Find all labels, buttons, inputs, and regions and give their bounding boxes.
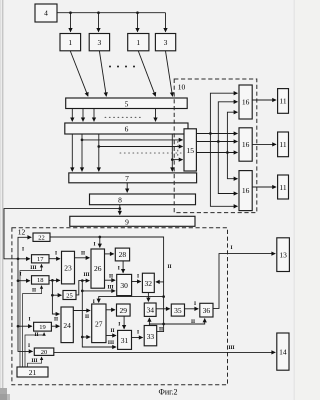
svg-text:II: II [85,314,89,320]
svg-text:36: 36 [203,306,211,315]
svg-text:24: 24 [63,321,71,330]
svg-text:III: III [30,265,36,271]
wire 29 to 31 [123,316,125,329]
wire 30 to 32 [132,281,141,283]
reference bus from 21 to 19 [25,333,44,367]
bus vertical 1 [210,93,237,133]
svg-text:I: I [137,330,139,336]
wire 36 to 13 [213,254,275,309]
reference bus from 21 to 18 [23,286,42,367]
box 19 [34,322,52,331]
wire 6 tap to 15 input 3 [172,159,182,161]
svg-text:16: 16 [242,186,250,195]
box 24 [61,307,73,343]
wire 32 to 34 [147,293,149,302]
svg-text:I: I [28,343,30,349]
svg-text:I: I [118,266,120,272]
box 16b [239,128,252,161]
box 30 [117,274,132,295]
15 output bus wires [196,133,237,135]
box 3b [155,34,175,51]
svg-text:I: I [55,251,57,257]
box 11a [278,89,289,114]
svg-text:II: II [109,273,113,279]
wire 33 to 34 [148,318,150,326]
wire 35 to 36 [185,308,199,310]
box 17 [32,255,50,263]
wire 19 to 24 [51,325,59,327]
svg-text:7: 7 [125,174,129,183]
wire 16a to 11a [252,99,276,101]
svg-text:28: 28 [119,250,127,259]
box 20 [34,348,54,356]
svg-text:II: II [159,327,163,333]
svg-text:I: I [194,301,196,307]
svg-text:17: 17 [37,256,44,263]
svg-text:10: 10 [178,83,186,92]
svg-text:II: II [167,264,171,270]
bus vertical 3 [227,112,237,152]
box 29 [117,304,131,316]
box 1b [128,34,149,51]
wire 24 to 27 [73,310,90,312]
box 34 [144,303,156,316]
svg-text:III: III [83,272,89,278]
box 33 [144,326,157,346]
svg-text:3: 3 [98,38,102,47]
svg-text:22: 22 [38,235,45,242]
box 31 [118,330,132,349]
wire 3a to 5 [99,51,106,96]
box 32 [142,273,154,292]
box 1a [60,34,81,51]
svg-text:13: 13 [279,251,287,260]
box 25 [63,291,76,300]
feedback riser to 22 and drops to 17,18,19,20 [18,237,31,258]
wire 3b to 5 [166,51,173,96]
wire 27 to 29 [106,309,115,311]
svg-text:III: III [107,284,113,290]
wire 26 to 30 [105,279,116,281]
svg-text:9: 9 [125,217,129,226]
box 8 [90,194,196,205]
wire 22 output long [50,237,164,332]
svg-text:II: II [34,332,38,338]
box 4 [35,4,57,22]
svg-text:31: 31 [121,336,129,345]
box 21 [17,367,48,377]
svg-text:34: 34 [146,306,154,315]
wire 31 to 33 [132,337,143,339]
svg-text:III: III [108,340,114,346]
svg-text:4: 4 [44,9,48,18]
box 18 [32,276,50,285]
wire to 36 bottom [162,323,165,326]
svg-text:25: 25 [66,293,73,300]
svg-text:6: 6 [125,125,129,134]
dotted ellipsis between 5 and 6 [105,116,141,118]
wire drop to box 3a [98,13,100,32]
box 28 [115,248,129,261]
box 15 [184,129,196,171]
wire 26 to 28 [105,253,114,255]
wire into 32 right [156,281,164,283]
box 13 [277,238,290,272]
svg-text:8: 8 [118,195,122,204]
box 16c [239,171,252,211]
dashed block 12 [12,227,228,384]
wire 23 to 26 [75,257,90,259]
box 27 [92,304,106,343]
svg-text:I: I [28,317,30,323]
box 3a [89,34,109,51]
svg-text:1: 1 [68,38,72,47]
svg-text:32: 32 [145,279,153,288]
wires 6 to 7 [71,134,73,171]
wire 25 riser to 26 [76,281,89,295]
wire 18 to 23 and taps [49,279,60,281]
wire 7 to 8 [126,183,128,193]
wire from 4 to antenna branches [57,12,166,14]
junction dots on top wire [69,11,72,14]
svg-text:11: 11 [279,97,286,106]
svg-text:14: 14 [279,348,287,357]
box 6 [65,123,188,134]
wire into 26 top [99,237,101,247]
reference bus from 21 to 17 [20,264,42,367]
svg-text:33: 33 [147,332,155,341]
box 36 [200,303,213,317]
box 26 [91,249,105,288]
box 35 [171,304,184,316]
svg-text:I: I [19,271,21,277]
svg-text:20: 20 [41,349,48,356]
wire drop to 30 and 27 and 31 [82,281,116,347]
svg-text:19: 19 [39,324,46,331]
box 22 [33,233,50,242]
svg-text:15: 15 [186,146,194,155]
svg-text:I: I [118,322,120,328]
svg-text:16: 16 [242,98,250,107]
svg-text:II: II [191,319,195,325]
svg-text:I: I [22,246,24,252]
wire 16b to 11b [252,143,276,145]
box 16a [239,85,252,119]
box 11b [278,132,289,157]
svg-text:I: I [137,274,139,280]
junction dots to 15 [81,139,84,142]
svg-text:12: 12 [18,227,26,236]
wires 5 to 6 [71,109,73,122]
ellipsis dots between input groups [109,66,135,68]
svg-text:5: 5 [125,99,129,108]
wire 8 to 9 [119,205,121,215]
svg-text:27: 27 [95,320,103,329]
svg-text:11: 11 [279,183,286,192]
box 14 [277,333,289,370]
svg-text:Фиг.2: Фиг.2 [159,388,178,397]
box 23 [62,251,75,284]
svg-text:18: 18 [37,277,44,284]
wire 34 to 35 [156,308,170,310]
wire 6 tap to 15 input 2 [99,146,183,148]
reference bus from 21 to 20 [28,357,42,367]
wire 1b to 5 [138,51,155,96]
wire drop to box 1b [137,13,139,32]
svg-text:II: II [81,250,85,256]
wire 28 to 30 [122,261,124,273]
svg-text:II: II [110,328,114,334]
box 7 [69,173,197,183]
svg-text:I: I [93,242,95,248]
wire 16c to 11c [252,186,276,188]
svg-text:16: 16 [242,140,250,149]
svg-text:11: 11 [279,140,286,149]
wire 17 to 23 [49,258,60,260]
wire 1a to 5 [70,51,88,96]
box 11c [278,175,289,199]
svg-text:1: 1 [136,38,140,47]
wire drop to box 3b [165,13,167,32]
feedback wire from 8/9 node to left side [4,209,120,259]
bus vertical 2 [218,102,237,142]
svg-text:29: 29 [120,306,128,315]
wire 6 tap to 15 input 1 [82,139,183,141]
wire into 27 top [162,295,165,298]
svg-text:23: 23 [64,264,72,273]
svg-text:3: 3 [164,38,168,47]
svg-text:I: I [230,245,232,251]
svg-text:35: 35 [174,306,182,315]
svg-text:21: 21 [29,368,37,377]
svg-text:III: III [31,358,37,364]
dashed block 10 [174,79,257,213]
svg-text:30: 30 [120,281,128,290]
svg-text:II: II [54,317,58,323]
svg-text:III: III [228,345,234,351]
dotted ellipsis wire to 15 [120,152,183,154]
box 5 [66,98,188,109]
svg-text:26: 26 [94,264,102,273]
wire 27 to 31 [106,335,116,337]
svg-text:II: II [32,288,36,294]
box 9 [70,216,195,226]
wire drop to box 1a [70,13,72,32]
wire 20 to 14 [54,351,275,353]
